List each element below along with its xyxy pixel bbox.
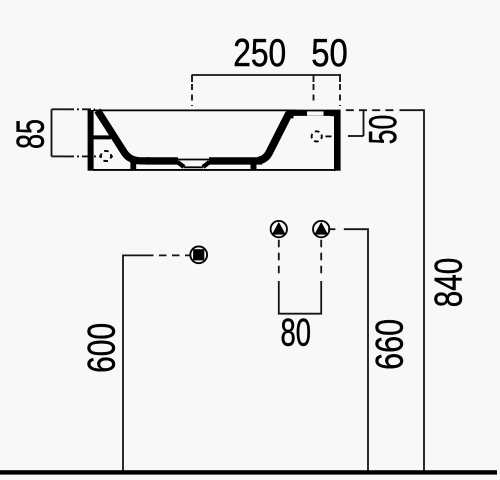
waste outlet elbow 600 bbox=[123, 255, 147, 470]
rim reference dashed line to 840 bbox=[346, 109, 394, 111]
basin shelf bbox=[93, 135, 111, 139]
supply connector to 660 bbox=[328, 228, 335, 230]
supply extension dashed right bbox=[320, 240, 322, 277]
svg-text:250: 250 bbox=[233, 32, 286, 75]
svg-text:80: 80 bbox=[281, 312, 312, 355]
fixing hole right tick bbox=[326, 135, 332, 137]
svg-text:660: 660 bbox=[369, 319, 412, 370]
fixing hole left (dashed circle) bbox=[102, 152, 110, 160]
water supply symbol left (circle with triangle) bbox=[271, 221, 287, 237]
waste outlet dashed lead bbox=[146, 254, 191, 256]
basin left wall bbox=[88, 110, 94, 171]
drain recess bottom line bbox=[184, 166, 203, 168]
svg-text:50: 50 bbox=[362, 115, 405, 145]
extension line basin right edge bbox=[339, 84, 341, 106]
svg-text:840: 840 bbox=[428, 258, 471, 308]
water supply symbol right (circle with triangle) bbox=[313, 221, 329, 237]
tap hole bbox=[307, 111, 324, 115]
bowl bottom left band bbox=[146, 157, 178, 164]
drain recess top chord bbox=[175, 159, 212, 161]
basin left inner wall bbox=[98, 111, 151, 161]
bowl bottom right band bbox=[209, 157, 262, 164]
extension line tap hole bbox=[313, 84, 315, 104]
basin right wall inner chamfer bbox=[330, 110, 335, 116]
drain recess right step bbox=[203, 162, 210, 167]
dimension bracket 85 left bbox=[52, 109, 66, 156]
drain recess left step bbox=[178, 162, 185, 167]
waste outlet symbol (circle with square) bbox=[190, 246, 207, 263]
basin right inner wall bbox=[258, 115, 294, 161]
centreline rim level bbox=[65, 108, 95, 110]
svg-text:50: 50 bbox=[311, 32, 348, 75]
dimension bracket 80 bbox=[279, 281, 321, 314]
fixing hole right (dashed circle) bbox=[312, 131, 322, 141]
basin foot left bbox=[130, 162, 136, 171]
basin foot right bbox=[251, 162, 257, 171]
basin rim top line bbox=[93, 109, 296, 111]
basin tap deck bbox=[293, 110, 335, 116]
supply extension dashed left bbox=[278, 240, 280, 277]
basin right wall bbox=[334, 110, 341, 171]
centreline fixing hole level bbox=[65, 155, 116, 157]
basin bottom line bbox=[93, 169, 336, 171]
svg-text:85: 85 bbox=[10, 119, 53, 149]
rim reference solid elbow bbox=[400, 110, 425, 470]
dimension line top (250/50) bbox=[192, 75, 342, 82]
floor line bbox=[0, 470, 497, 474]
svg-text:600: 600 bbox=[81, 323, 124, 373]
dimension bracket 50 right bbox=[348, 110, 364, 136]
extension line drain centre bbox=[191, 84, 193, 106]
